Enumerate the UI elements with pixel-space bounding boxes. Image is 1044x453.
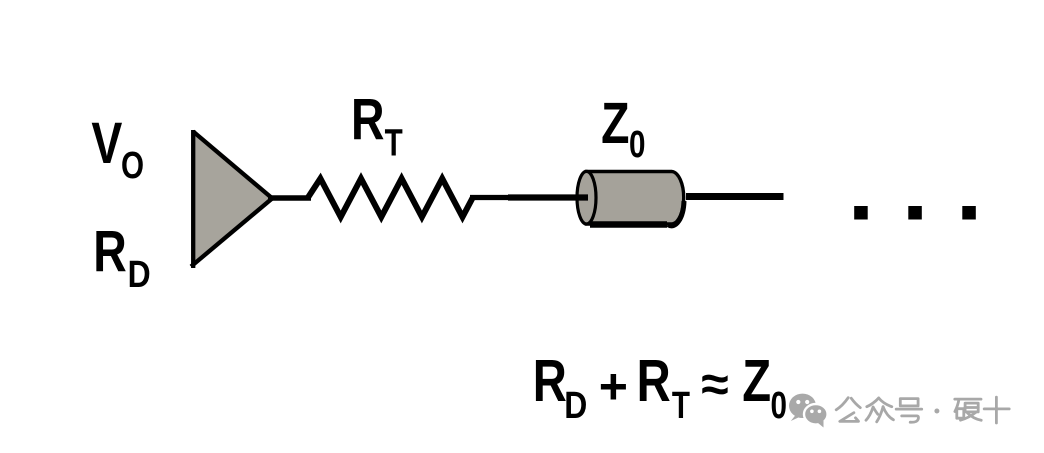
svg-text:≈: ≈ [701,356,728,412]
svg-text:+: + [599,359,628,415]
svg-text:O: O [121,144,144,186]
svg-text:0: 0 [771,385,787,427]
svg-text:D: D [128,254,151,296]
svg-text:T: T [385,122,403,164]
svg-text:D: D [564,384,587,426]
svg-text:R: R [93,219,127,284]
svg-text:Z: Z [601,91,629,156]
svg-text:0: 0 [629,124,645,166]
svg-text:R: R [637,349,671,414]
svg-text:T: T [672,385,690,427]
svg-text:Z: Z [742,349,771,414]
svg-text:V: V [91,111,122,176]
svg-text:R: R [351,88,385,153]
svg-text:R: R [533,349,567,414]
